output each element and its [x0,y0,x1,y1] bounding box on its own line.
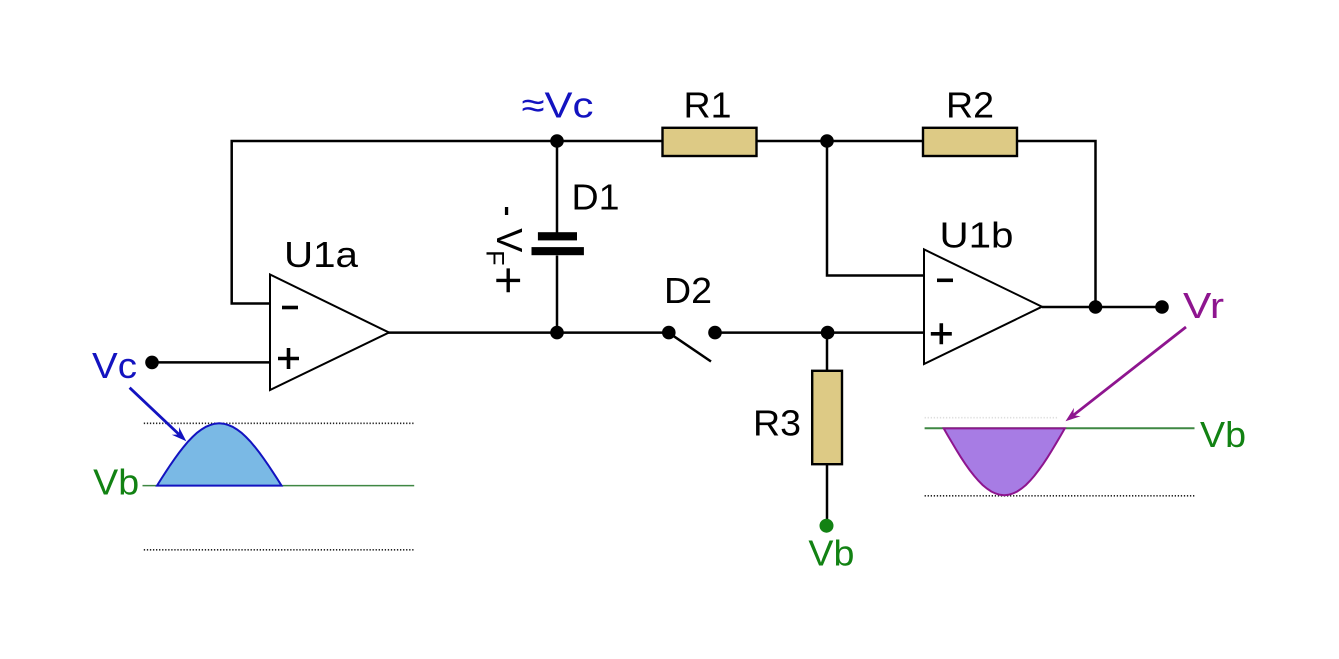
left graph Vb baseline [143,485,415,487]
node dot Vc input terminal [145,356,159,370]
blue arrow head [172,427,187,441]
left graph Vc sine hump [157,423,282,485]
U1a minus input symbol [282,306,298,310]
U1b plus input symbol [931,323,952,344]
right graph Vr sine dip [944,428,1065,495]
purple arrow shaft from Vr label [1073,327,1186,416]
resistor R2 [923,128,1017,156]
diode D1 top plate [538,232,577,240]
svg-text:V: V [489,228,530,252]
svg-text:Vb: Vb [808,533,854,574]
svg-text:Vb: Vb [1200,414,1246,455]
right graph bottom dotted line [925,495,1195,497]
resistor R3 [812,371,842,464]
op-amp U1a [270,275,389,391]
wire from R2 right corner down to U1b output node [1017,141,1096,307]
node dot R3 junction [821,326,835,340]
resistor R1 [663,128,757,156]
svg-text:R2: R2 [946,85,994,126]
svg-text:F: F [481,250,509,265]
svg-text:R3: R3 [753,403,801,444]
right graph faint dotted line [925,417,1058,419]
switch D2 lever [669,333,711,362]
svg-text:Vc: Vc [92,345,137,386]
svg-text:Vr: Vr [1183,285,1224,326]
svg-text:R1: R1 [684,85,732,126]
svg-text:U1b: U1b [940,215,1014,256]
wire U1a output to D2 left contact [388,331,669,334]
blue arrow shaft from Vc label [130,388,180,435]
node dot D1 bottom junction [550,326,564,340]
left graph top dotted line [144,422,414,424]
wire D1 bottom branch [556,256,559,333]
right graph Vb baseline [925,427,1195,429]
svg-text:U1a: U1a [284,234,359,275]
left graph bottom dotted line [144,549,414,551]
wire between R1 and R2 [756,140,924,143]
svg-text:≈Vc: ≈Vc [522,84,594,125]
op-amp U1b [924,249,1042,364]
node dot D2 left contact [662,326,676,340]
purple arrow head [1066,408,1081,421]
U1b minus input symbol [937,278,953,282]
U1a plus input symbol [278,348,299,369]
svg-text:D1: D1 [572,177,620,218]
wire Vc input to U1a non-inverting input [152,361,270,364]
wire U1b output to Vr terminal [1042,306,1162,309]
D1 polarity minus tick (rotated hyphen) [505,207,508,215]
node dot Vr terminal [1155,300,1169,314]
D1 polarity plus sign [496,268,520,292]
svg-text:D2: D2 [664,270,712,311]
node dot R1-R2 junction [820,134,834,148]
wire R3 top stub [826,333,829,371]
svg-text:Vb: Vb [93,462,139,503]
diode D1 bottom plate [532,247,584,255]
wire U1b inverting feedback from R1/R2 junction [827,141,924,276]
wire top net from U1a feedback corner to R1 [232,141,663,304]
wire D2 right contact to U1b non-inverting input [715,331,924,334]
node dot U1b output junction [1089,300,1103,314]
wire D1 top branch [556,141,559,233]
node dot top of D1 [550,134,564,148]
terminal dot Vb below R3 [820,519,834,533]
wire R3 bottom stub to Vb terminal [826,464,829,520]
node dot D2 right contact [708,326,722,340]
